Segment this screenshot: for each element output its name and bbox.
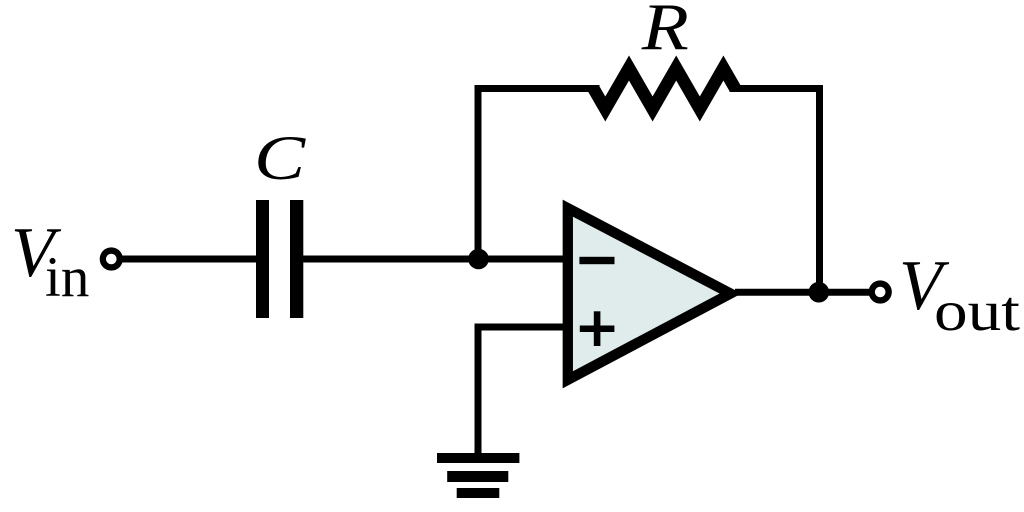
svg-text:out: out bbox=[934, 280, 1020, 343]
op-amp inverting input minus sign bbox=[579, 257, 614, 264]
label R bbox=[641, 0, 689, 64]
label Vout (subscript out) bbox=[934, 280, 1020, 343]
node: output junction dot bbox=[809, 282, 830, 303]
svg-text:in: in bbox=[45, 246, 89, 309]
wire: capacitor C to inverting input bbox=[303, 256, 570, 263]
wire: feedback branch (junction up and across to resistor) bbox=[478, 89, 600, 260]
op-amp U1 bbox=[568, 208, 731, 380]
wire: resistor R to output junction (top right corner down) bbox=[730, 89, 820, 293]
ground bbox=[437, 453, 519, 498]
terminal: Vout output port bbox=[872, 284, 889, 301]
wire: non-inverting input to ground bbox=[478, 327, 570, 456]
wire: Vin terminal to capacitor C bbox=[122, 256, 256, 263]
resistor R bbox=[594, 68, 736, 109]
op-amp non-inverting input plus sign bbox=[580, 311, 615, 346]
label C bbox=[254, 124, 306, 193]
svg-text:C: C bbox=[254, 124, 306, 193]
node: inverting input junction dot bbox=[468, 249, 489, 270]
capacitor C bbox=[256, 200, 303, 318]
wire: op-amp output to Vout terminal bbox=[735, 289, 870, 296]
terminal: Vin input port bbox=[103, 251, 120, 268]
svg-text:R: R bbox=[641, 0, 689, 64]
